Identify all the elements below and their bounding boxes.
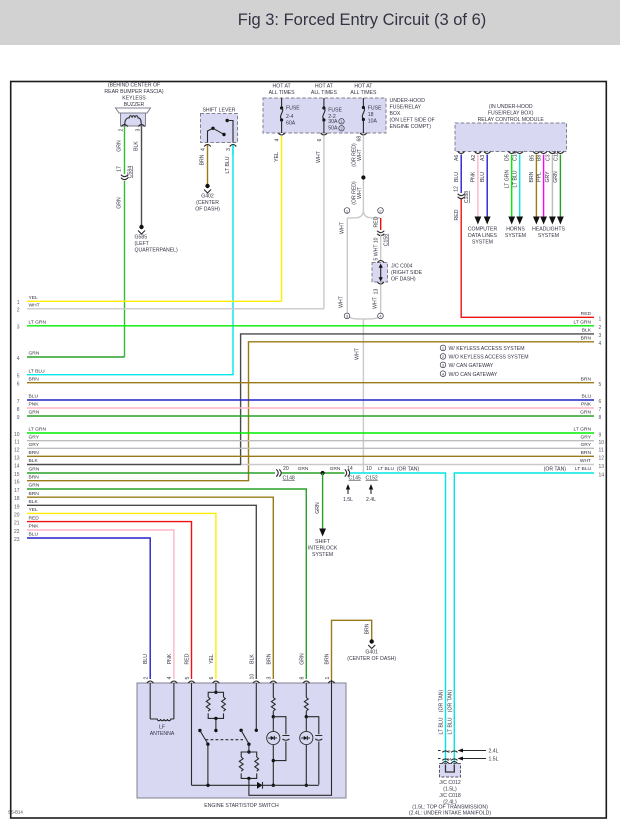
- svg-text:20: 20: [14, 512, 20, 518]
- wire LT BLU (OR TAN) segment to J/C drop: [350, 466, 446, 763]
- svg-text:1: 1: [325, 677, 331, 680]
- svg-text:BRN: BRN: [29, 450, 40, 456]
- wire row L14 BLK joins vertical to R3: [14, 328, 602, 470]
- svg-text:17: 17: [14, 488, 20, 494]
- svg-text:BUZZER: BUZZER: [124, 102, 145, 108]
- wire LT BLU arrow C14 horns: [512, 155, 523, 225]
- svg-text:(IN UNDER-HOOD: (IN UNDER-HOOD: [489, 104, 533, 110]
- svg-text:4: 4: [17, 356, 20, 362]
- shift lever component box: [201, 114, 238, 143]
- wire LED pin 3 branch: [272, 717, 274, 786]
- footnotes keyless/can gateway: [440, 345, 528, 378]
- svg-text:RED: RED: [454, 209, 460, 220]
- svg-text:LT GRN: LT GRN: [29, 427, 47, 433]
- wire row L22 PNK to switch pin 4: [14, 524, 174, 679]
- svg-text:GRY: GRY: [29, 442, 40, 448]
- connector C145 pin 14: [345, 466, 361, 481]
- svg-text:(CENTER: (CENTER: [196, 200, 219, 206]
- node pin8 branch top: [305, 715, 308, 718]
- svg-text:10: 10: [366, 466, 372, 472]
- svg-text:PNK: PNK: [167, 653, 173, 664]
- svg-text:GRY: GRY: [29, 434, 40, 440]
- relay control module box: [455, 123, 567, 152]
- fuse box pin 6: [317, 133, 327, 142]
- svg-text:1: 1: [599, 317, 602, 323]
- svg-text:RED: RED: [581, 311, 592, 317]
- svg-text:LF: LF: [159, 725, 165, 731]
- svg-text:FUSE/RELAY: FUSE/RELAY: [390, 105, 422, 111]
- node bus left pivot: [206, 784, 209, 787]
- svg-text:HORNS: HORNS: [506, 227, 525, 233]
- wire row L9/R8 GRN full width: [17, 410, 602, 422]
- wire row L18 BRN to switch pin 3: [14, 491, 273, 679]
- shift lever pin 4: [201, 145, 211, 152]
- svg-text:20: 20: [283, 466, 289, 472]
- svg-text:SYSTEM: SYSTEM: [312, 552, 333, 558]
- capacitor C pin 8 branch: [315, 736, 322, 741]
- headlights system label: [532, 227, 565, 240]
- resistor on pin 8 branch: [304, 683, 308, 716]
- svg-text:RED: RED: [29, 515, 40, 521]
- svg-text:C584: C584: [128, 166, 134, 178]
- svg-text:23: 23: [14, 537, 20, 543]
- svg-text:C145: C145: [349, 475, 361, 481]
- svg-text:LT BLU: LT BLU: [575, 466, 592, 472]
- wire LT GRN arrow D5 horns: [504, 155, 515, 225]
- svg-text:SS-B14: SS-B14: [8, 810, 23, 815]
- svg-text:BRN: BRN: [581, 336, 592, 342]
- J/C C012/C018 joint connector: [440, 762, 461, 778]
- svg-text:WHT: WHT: [357, 148, 363, 161]
- wire BLK buzzer to ground: [134, 127, 142, 226]
- wire row L1 YEL: [17, 295, 282, 306]
- svg-text:LT BLU: LT BLU: [225, 156, 231, 173]
- svg-text:8: 8: [17, 407, 20, 413]
- svg-text:15: 15: [14, 472, 20, 478]
- switch pin 4: [167, 653, 177, 683]
- svg-text:ENGINE START/STOP SWITCH: ENGINE START/STOP SWITCH: [204, 803, 279, 809]
- svg-text:OF DASH): OF DASH): [391, 277, 416, 283]
- wire pin 5 to bus: [191, 683, 193, 785]
- svg-text:7: 7: [17, 399, 20, 405]
- wire row L4 GRN: [17, 351, 125, 362]
- svg-text:YEL: YEL: [209, 654, 215, 664]
- svg-text:(RIGHT SIDE: (RIGHT SIDE: [391, 270, 423, 276]
- svg-text:10: 10: [250, 674, 256, 680]
- svg-text:18: 18: [368, 112, 374, 118]
- switch pin 2: [143, 654, 153, 683]
- wire row L13/R12 BRN full width: [14, 450, 604, 462]
- svg-text:LT BLU: LT BLU: [512, 170, 518, 187]
- svg-text:ALL TIMES: ALL TIMES: [269, 90, 296, 96]
- svg-text:WHT: WHT: [354, 347, 360, 360]
- wire LT BLU shift lever vertical (under rows): [232, 145, 234, 375]
- ground G402: [195, 184, 220, 213]
- svg-text:14: 14: [14, 464, 20, 470]
- connector C188 pin 12 on A6 wire: [453, 186, 470, 203]
- svg-text:J/C C004: J/C C004: [391, 264, 413, 270]
- hot at all times labels: [269, 84, 377, 97]
- node pin3 at bus: [272, 784, 275, 787]
- svg-text:21: 21: [14, 521, 20, 527]
- wire capacitor branch pin 8: [306, 717, 319, 785]
- switch pin 3: [266, 653, 276, 683]
- svg-text:RED: RED: [185, 653, 191, 664]
- module pin C11: [553, 152, 563, 162]
- svg-text:1.5L: 1.5L: [489, 757, 499, 763]
- computer data lines system label: [468, 227, 498, 246]
- engine start/stop switch box: [137, 683, 346, 798]
- wire bottom bus left: [192, 784, 258, 786]
- svg-text:(OR TAN): (OR TAN): [544, 467, 567, 473]
- svg-text:GRN: GRN: [298, 466, 309, 472]
- svg-text:HOT AT: HOT AT: [315, 84, 334, 90]
- svg-text:(2.4L: UNDER INTAKE MANIFOLD): (2.4L: UNDER INTAKE MANIFOLD): [409, 811, 491, 817]
- node pin8 at bus: [305, 784, 308, 787]
- svg-text:13: 13: [14, 455, 20, 461]
- module pin B8: [537, 152, 547, 162]
- svg-text:(OR TAN): (OR TAN): [447, 690, 453, 713]
- svg-text:2.4L: 2.4L: [489, 749, 499, 755]
- svg-text:BOX: BOX: [390, 111, 401, 117]
- wire WHT fuse 2-2 to row 2: [316, 136, 324, 309]
- wire pin 10 stub: [255, 683, 258, 732]
- svg-text:12: 12: [599, 456, 605, 462]
- svg-text:2: 2: [118, 129, 124, 132]
- svg-text:LT GRN: LT GRN: [29, 320, 47, 326]
- svg-text:G585: G585: [135, 235, 148, 241]
- svg-text:PNK: PNK: [29, 524, 40, 530]
- svg-text:BRN: BRN: [29, 376, 40, 382]
- svg-text:BLU: BLU: [480, 172, 486, 182]
- svg-text:WHT: WHT: [340, 221, 346, 234]
- wire row L8/R7 PNK full width: [17, 402, 602, 414]
- svg-text:WHT: WHT: [373, 296, 379, 309]
- module pin A3: [480, 152, 490, 162]
- node pin3 branch bottom: [272, 759, 275, 762]
- wire RED right branch to connector C158: [373, 216, 389, 260]
- wire WHT (OR RED) fuse 18 down: [351, 136, 363, 210]
- svg-text:1.5L: 1.5L: [343, 497, 353, 503]
- wire GRY arrow C3 headlights: [545, 155, 556, 225]
- J/C pin marks and engine variant arrows: [438, 748, 499, 762]
- svg-text:PNK: PNK: [471, 171, 477, 182]
- svg-text:COMPUTER: COMPUTER: [468, 227, 498, 233]
- svg-text:12: 12: [453, 186, 459, 192]
- svg-text:SYSTEM: SYSTEM: [538, 233, 559, 239]
- svg-text:WHT: WHT: [29, 303, 40, 309]
- wire LT BLU shift lever to row 5: [225, 145, 233, 173]
- svg-text:ALL TIMES: ALL TIMES: [350, 90, 377, 96]
- svg-text:C188: C188: [464, 191, 470, 203]
- switch pin 10: [249, 654, 259, 683]
- J/C C012/C018 labels: [409, 780, 491, 817]
- svg-text:BRN: BRN: [29, 491, 40, 497]
- svg-text:GRN: GRN: [29, 351, 40, 357]
- shift lever pin 3: [226, 145, 236, 152]
- wire row L15 GRN segment: [14, 467, 275, 478]
- svg-text:12: 12: [14, 447, 20, 453]
- svg-text:4: 4: [275, 139, 281, 142]
- svg-text:FUSE: FUSE: [368, 106, 382, 112]
- svg-text:GRN: GRN: [315, 502, 321, 514]
- svg-text:BRN: BRN: [364, 623, 370, 634]
- ground G585: [135, 225, 179, 254]
- svg-text:LT GRN: LT GRN: [504, 170, 510, 189]
- svg-text:DATA LINES: DATA LINES: [468, 233, 498, 239]
- svg-text:14: 14: [347, 466, 353, 472]
- wire PNK arrow A2 computer data lines: [471, 155, 482, 225]
- svg-text:D5: D5: [505, 154, 511, 161]
- svg-text:18: 18: [14, 496, 20, 502]
- svg-text:YEL: YEL: [274, 152, 280, 162]
- wire WHT merged down to row 15: [354, 347, 360, 360]
- wire capacitor branch pin 3: [273, 717, 286, 761]
- module pin C14: [513, 151, 523, 161]
- keyless buzzer component: [116, 108, 151, 126]
- svg-text:INTERLOCK: INTERLOCK: [308, 546, 338, 552]
- svg-text:11: 11: [14, 440, 19, 446]
- svg-text:4: 4: [599, 341, 602, 347]
- svg-text:68: 68: [356, 136, 362, 142]
- module pin C3: [545, 152, 555, 162]
- module pin D5: [505, 152, 515, 162]
- wire bottom bus right: [263, 784, 319, 786]
- wire row L7/R6 BLU full width: [17, 394, 602, 406]
- svg-text:(BEHIND CENTER OF: (BEHIND CENTER OF: [108, 83, 160, 89]
- svg-text:ENGINE COMPT): ENGINE COMPT): [390, 124, 432, 130]
- svg-text:LT BLU: LT BLU: [29, 368, 46, 374]
- svg-text:10A: 10A: [368, 119, 378, 125]
- svg-text:W/ CAN GATEWAY: W/ CAN GATEWAY: [449, 363, 494, 369]
- svg-text:(1.5L): (1.5L): [443, 787, 457, 793]
- buzzer pin 2: [118, 125, 128, 132]
- branch split bracket top: [344, 208, 383, 218]
- svg-text:B8: B8: [537, 155, 543, 161]
- svg-text:17: 17: [117, 166, 123, 172]
- switch pin 6: [209, 654, 219, 683]
- resistor pair lower: [239, 680, 331, 795]
- fuse 18 10A: [362, 98, 382, 133]
- svg-text:60A: 60A: [286, 121, 296, 127]
- svg-text:2: 2: [599, 325, 602, 331]
- wire PPL arrow B8 headlights: [536, 155, 547, 225]
- svg-text:WHT: WHT: [316, 150, 322, 163]
- svg-text:W/ KEYLESS ACCESS SYSTEM: W/ KEYLESS ACCESS SYSTEM: [449, 346, 525, 352]
- svg-text:B5: B5: [529, 155, 535, 161]
- svg-text:(ON LEFT SIDE OF: (ON LEFT SIDE OF: [390, 118, 435, 124]
- LF antenna: [150, 683, 175, 737]
- svg-text:16: 16: [14, 480, 20, 486]
- svg-text:5: 5: [17, 374, 20, 380]
- svg-text:W/O CAN GATEWAY: W/O CAN GATEWAY: [449, 372, 498, 378]
- svg-text:WHT: WHT: [580, 458, 591, 464]
- svg-text:(OR TAN): (OR TAN): [439, 690, 445, 713]
- svg-text:J/C C018: J/C C018: [439, 793, 461, 799]
- fuse 2-2 30A/50A: [322, 98, 344, 133]
- shift interlock system arrow: [308, 473, 338, 558]
- connector C152 pin 10: [366, 466, 378, 481]
- wire row L5 LT BLU: [17, 368, 234, 379]
- wire WHT below J/C C004: [373, 285, 381, 311]
- svg-text:WHT: WHT: [357, 186, 363, 199]
- svg-text:10: 10: [14, 432, 20, 438]
- title header bar: [0, 0, 620, 45]
- fuse box name: [390, 98, 435, 130]
- svg-text:3: 3: [267, 677, 273, 680]
- shift lever switch internals: [208, 119, 234, 143]
- diode on bus: [257, 782, 263, 789]
- fuse box: [263, 98, 386, 133]
- svg-text:QUARTERPANEL): QUARTERPANEL): [135, 248, 179, 254]
- svg-text:GRN: GRN: [330, 466, 341, 472]
- wire row L17 GRN to switch pin 8: [14, 483, 306, 679]
- junction node on WHT fuse 18 wire: [361, 175, 365, 179]
- wire row R13 WHT: [241, 458, 604, 470]
- svg-text:KEYLESS: KEYLESS: [122, 96, 146, 102]
- LED indicator pin 8: [300, 731, 313, 744]
- svg-text:BRN: BRN: [29, 474, 40, 480]
- svg-text:11: 11: [599, 448, 604, 454]
- svg-text:2-4: 2-4: [286, 114, 294, 120]
- wire GRN buzzer to row 4: [117, 127, 125, 209]
- svg-text:50A: 50A: [328, 126, 338, 132]
- svg-text:GRN: GRN: [29, 467, 40, 473]
- svg-text:BLU: BLU: [29, 394, 39, 400]
- svg-text:BLK: BLK: [29, 499, 39, 505]
- svg-text:5: 5: [185, 677, 191, 680]
- svg-text:30A: 30A: [328, 119, 338, 125]
- wire BRN vertical link R4 to L16 (under rows): [248, 342, 250, 481]
- svg-text:YEL: YEL: [29, 295, 39, 301]
- svg-text:C152: C152: [366, 475, 378, 481]
- svg-text:C158: C158: [384, 234, 390, 246]
- svg-text:GRN: GRN: [29, 410, 40, 416]
- horns system label: [505, 227, 526, 240]
- svg-text:7: 7: [599, 407, 602, 413]
- svg-text:FUSE: FUSE: [328, 108, 342, 114]
- svg-text:A2: A2: [471, 155, 477, 161]
- wire GRN arrow C11 headlights: [553, 155, 564, 225]
- svg-text:RELAY CONTROL MODULE: RELAY CONTROL MODULE: [478, 117, 545, 123]
- connector C584 pin 17 on GRN wire: [117, 166, 134, 180]
- svg-text:19: 19: [14, 504, 20, 510]
- svg-text:GRN: GRN: [580, 410, 591, 416]
- wire row L19 BLK to switch pin 10: [14, 499, 256, 679]
- wire row R14 LT BLU from J/C to right edge: [447, 466, 604, 763]
- svg-text:13: 13: [374, 289, 380, 295]
- svg-text:BRN: BRN: [200, 154, 206, 165]
- fuse 2-4 60A: [280, 98, 300, 133]
- svg-text:GRN: GRN: [117, 140, 123, 152]
- wire row L20 YEL to switch pin 6: [14, 507, 216, 679]
- wire WHT C158 to J/C C004: [380, 234, 382, 260]
- resistor pair upper (pin 6): [206, 683, 225, 729]
- svg-text:BLU: BLU: [454, 172, 460, 182]
- svg-text:GRY: GRY: [545, 171, 551, 183]
- svg-text:2: 2: [17, 308, 20, 314]
- svg-text:6: 6: [209, 677, 215, 680]
- wire row L21 RED to switch pin 5: [14, 515, 192, 679]
- connector C148 pin 20: [276, 466, 295, 481]
- svg-text:9: 9: [17, 415, 20, 421]
- svg-text:C148: C148: [283, 475, 295, 481]
- svg-text:5 WHT 10: 5 WHT 10: [373, 237, 379, 260]
- wire BRN shift lever to ground: [200, 145, 208, 184]
- svg-text:C3: C3: [545, 154, 551, 161]
- svg-text:BRN: BRN: [325, 653, 331, 664]
- fuse box pin 4: [275, 133, 285, 142]
- left push switch: [198, 729, 217, 786]
- svg-text:GRN: GRN: [117, 197, 123, 209]
- wire GRN segment C148 to junction: [282, 466, 345, 473]
- svg-text:6: 6: [599, 399, 602, 405]
- branch merge bracket bottom: [344, 311, 383, 319]
- svg-text:YEL: YEL: [29, 507, 39, 513]
- svg-text:LT BLU: LT BLU: [378, 466, 395, 472]
- wire row L16 BRN joins vertical to R4: [14, 336, 602, 486]
- svg-text:BRN: BRN: [266, 653, 272, 664]
- svg-text:4: 4: [167, 677, 173, 680]
- svg-text:LT BLU: LT BLU: [439, 717, 445, 734]
- svg-text:Fig 3: Forced Entry Circuit (3: Fig 3: Forced Entry Circuit (3 of 6): [238, 11, 487, 29]
- svg-text:8: 8: [300, 677, 306, 680]
- svg-text:G402: G402: [201, 194, 214, 200]
- svg-text:ALL TIMES: ALL TIMES: [311, 90, 338, 96]
- svg-text:6: 6: [17, 382, 20, 388]
- svg-text:GRN: GRN: [299, 653, 305, 665]
- wire LED pin 8 branch: [305, 717, 307, 786]
- svg-text:(LEFT: (LEFT: [135, 241, 150, 247]
- svg-text:SYSTEM: SYSTEM: [505, 233, 526, 239]
- svg-text:OF DASH): OF DASH): [195, 207, 220, 213]
- ground G401: [347, 639, 396, 662]
- svg-text:GRN: GRN: [553, 171, 559, 183]
- node pin3 branch top: [272, 715, 275, 718]
- wire row L6/R5 BRN full width: [17, 376, 602, 388]
- svg-text:9: 9: [599, 433, 602, 439]
- svg-text:2: 2: [144, 677, 150, 680]
- LED indicator pin 3: [267, 731, 280, 744]
- svg-text:24: 24: [447, 756, 452, 761]
- svg-text:BLK: BLK: [249, 654, 255, 664]
- svg-text:HOT AT: HOT AT: [354, 84, 373, 90]
- J/C C004: [372, 261, 423, 285]
- svg-text:13: 13: [599, 464, 605, 470]
- wire row L3/R2 LT GRN full width: [17, 320, 602, 331]
- svg-text:SHIFT: SHIFT: [315, 539, 331, 545]
- svg-text:(CENTER OF DASH): (CENTER OF DASH): [347, 656, 396, 662]
- svg-text:BLK: BLK: [582, 328, 592, 334]
- resistor on pin 3 branch: [271, 683, 275, 716]
- wire YEL fuse 2-4 to row 1: [274, 136, 282, 301]
- svg-text:W/O KEYLESS ACCESS SYSTEM: W/O KEYLESS ACCESS SYSTEM: [449, 355, 529, 361]
- wire row R1 RED from relay control module: [454, 199, 602, 323]
- capacitor C pin 3 branch: [282, 736, 289, 741]
- svg-text:SHIFT LEVER: SHIFT LEVER: [202, 108, 235, 114]
- wire GRN buzzer vertical (under rows): [124, 181, 126, 357]
- svg-text:HOT AT: HOT AT: [273, 84, 292, 90]
- relay control module label: [478, 104, 545, 123]
- svg-text:GRN: GRN: [29, 483, 40, 489]
- right push switch: [239, 729, 250, 752]
- svg-text:10: 10: [599, 440, 605, 446]
- svg-text:PNK: PNK: [29, 402, 40, 408]
- svg-text:4: 4: [201, 148, 207, 151]
- svg-text:G401: G401: [365, 650, 378, 656]
- svg-text:22: 22: [14, 529, 20, 535]
- svg-text:6: 6: [317, 139, 323, 142]
